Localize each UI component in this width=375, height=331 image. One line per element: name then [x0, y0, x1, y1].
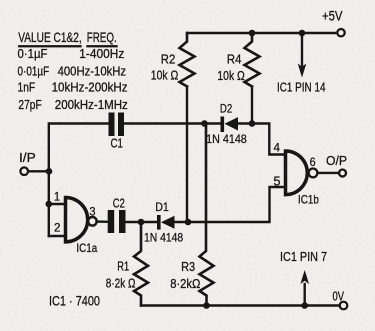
resistor R4	[245, 33, 260, 87]
svg-text:IC1 PIN 14: IC1 PIN 14	[277, 80, 326, 94]
diode D2	[221, 117, 239, 133]
svg-text:1-400Hz: 1-400Hz	[79, 46, 124, 61]
node R3 bottom junction	[203, 302, 210, 309]
svg-text:IC1b: IC1b	[298, 193, 319, 207]
node I/P junction	[46, 168, 53, 175]
svg-text:5: 5	[274, 175, 281, 189]
node D2 anode junction	[249, 120, 256, 127]
wire pin4 feed	[252, 124, 286, 155]
node pin7 junction	[301, 302, 308, 309]
wire C1 left segment	[49, 124, 109, 237]
svg-text:O/P: O/P	[326, 153, 347, 168]
svg-text:6: 6	[310, 155, 316, 169]
wire pin2 stub	[49, 235, 66, 237]
wire +5V top rail	[187, 32, 337, 34]
wire pin1 stub	[49, 203, 66, 205]
terminal I/P	[20, 167, 28, 175]
capacitor C1	[109, 113, 125, 137]
svg-text:0·01µF: 0·01µF	[18, 64, 50, 79]
svg-text:IC1a: IC1a	[76, 241, 97, 255]
arrowhead pin7	[300, 270, 309, 284]
terminal O/P	[339, 170, 346, 177]
wire pin5 feed	[175, 187, 286, 222]
node pin1 junction	[46, 201, 53, 208]
node C2/R1 junction	[138, 219, 145, 226]
wire IC1a out to C2	[97, 220, 108, 223]
node pin14 junction	[299, 30, 306, 37]
svg-text:8·2kΩ: 8·2kΩ	[170, 276, 200, 291]
svg-text:400Hz-10kHz: 400Hz-10kHz	[58, 64, 127, 79]
wire R2 bottom to D1 node	[186, 87, 188, 223]
svg-text:10k Ω: 10k Ω	[151, 68, 179, 83]
svg-text:C2: C2	[113, 197, 125, 211]
svg-text:D1: D1	[155, 200, 169, 214]
wire pin7 arrow shaft	[304, 284, 306, 306]
wire O/P	[319, 172, 340, 174]
node C1/D2/R3 junction	[201, 120, 208, 127]
svg-text:0·1µF: 0·1µF	[18, 46, 48, 61]
wire C2 right to D1 cathode	[126, 221, 158, 223]
terminal 0V	[340, 302, 348, 310]
svg-text:R2: R2	[161, 52, 176, 67]
resistor R2	[180, 33, 195, 87]
capacitor C2	[108, 210, 126, 233]
svg-text:10kHz-200kHz: 10kHz-200kHz	[52, 80, 128, 95]
wire pin14 arrow shaft	[301, 33, 303, 66]
svg-text:R1: R1	[117, 259, 129, 274]
terminal +5V	[337, 29, 344, 36]
gate IC1b 7400 NAND body	[286, 151, 308, 195]
svg-text:1: 1	[54, 190, 60, 204]
svg-text:IC1 · 7400: IC1 · 7400	[49, 293, 100, 309]
svg-text:1N 4148: 1N 4148	[144, 231, 183, 245]
svg-text:I/P: I/P	[19, 151, 36, 165]
resistor R1	[134, 222, 148, 306]
node IC1b output bubble	[309, 169, 318, 178]
svg-text:R3: R3	[181, 259, 195, 274]
wire D2 anode to R4 node	[238, 122, 252, 124]
table header underline	[18, 45, 81, 47]
resistor R3	[200, 124, 214, 306]
gate IC1a 7400 NAND body	[66, 198, 88, 242]
svg-text:27pF: 27pF	[18, 97, 41, 112]
wire I/P to vertical	[28, 170, 49, 172]
svg-text:10k Ω: 10k Ω	[217, 68, 245, 83]
svg-text:2: 2	[54, 221, 61, 235]
svg-text:1nF: 1nF	[18, 80, 36, 95]
diode D1	[157, 215, 175, 230]
svg-text:D2: D2	[220, 102, 233, 116]
node R4 top junction	[249, 30, 256, 37]
svg-text:FREQ.: FREQ.	[87, 29, 117, 45]
svg-text:4: 4	[274, 141, 281, 155]
node D1 anode junction	[185, 219, 192, 226]
svg-text:VALUE C1&2,: VALUE C1&2,	[18, 29, 81, 45]
wire C1 right to D2 cathode	[124, 122, 221, 124]
node IC1a output bubble	[88, 217, 97, 226]
svg-text:0V: 0V	[333, 289, 345, 304]
arrowhead pin14	[298, 64, 307, 78]
svg-text:8·2k Ω: 8·2k Ω	[106, 276, 136, 291]
svg-text:IC1 PIN 7: IC1 PIN 7	[280, 250, 327, 264]
svg-text:200kHz-1MHz: 200kHz-1MHz	[55, 97, 128, 112]
svg-text:3: 3	[90, 205, 96, 219]
wire 0V bottom rail	[141, 304, 340, 306]
svg-text:1N 4148: 1N 4148	[206, 132, 247, 146]
svg-text:C1: C1	[111, 137, 124, 151]
svg-text:R4: R4	[227, 52, 242, 67]
svg-text:+5V: +5V	[322, 9, 343, 24]
wire R4 bottom to D2 anode node	[251, 87, 253, 124]
